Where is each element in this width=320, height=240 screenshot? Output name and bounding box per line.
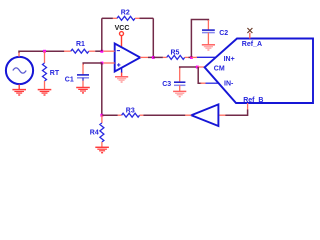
resistor RT top pin — [44, 51, 46, 63]
svg-text:IN+: IN+ — [224, 56, 235, 63]
node junction at R3/R4 — [100, 114, 103, 117]
wire Ref_B to buffer — [225, 110, 248, 116]
op-amp U1 triangle — [115, 44, 141, 72]
resistor R3 right pin — [140, 114, 144, 116]
op-amp U1 non-inverting input pin — [103, 62, 114, 64]
buffer U3 input pin — [219, 114, 226, 116]
wire buffer output to R3 — [143, 114, 185, 116]
voltage source top pin — [18, 52, 20, 56]
capacitor C1 bottom stem — [82, 78, 84, 81]
pin stub IN+ — [197, 56, 216, 58]
wire R5 to IN+ node — [188, 56, 191, 58]
wire R2 top rail left — [102, 17, 113, 19]
node junction at IN+ — [190, 56, 193, 59]
resistor R4 — [100, 123, 104, 142]
op-amp U1 plus symbol — [117, 63, 120, 66]
pin stub CM salmon — [197, 66, 204, 68]
resistor R2 left pin — [113, 17, 117, 19]
wire op-amp output to node — [148, 56, 153, 58]
node junction at output — [152, 56, 155, 59]
op-amp U1 inverting input pin — [103, 50, 114, 52]
pin stub IN+ salmon — [191, 56, 197, 58]
op-amp U1 output pin — [140, 56, 148, 58]
wire CM node to IN- — [198, 67, 201, 83]
op-amp U1 ground stem — [121, 73, 123, 77]
voltage source VS circle — [6, 57, 33, 84]
svg-text:C1: C1 — [65, 76, 74, 83]
wire node to R3 — [102, 114, 118, 116]
voltage source sine symbol — [13, 68, 26, 73]
resistor R1 — [71, 49, 89, 53]
capacitor C2 bottom pin — [207, 33, 209, 45]
resistor R1 right pin — [89, 50, 95, 52]
capacitor C3 top pin — [179, 68, 181, 82]
VCC stem to op-amp U1 — [121, 36, 123, 48]
resistor R5 right pin — [185, 56, 189, 58]
capacitor C3 bottom pin — [179, 85, 181, 91]
resistor R2 — [117, 16, 135, 20]
capacitor C2 top pin — [207, 20, 209, 30]
svg-text:CM: CM — [214, 66, 225, 73]
wire C1 to plus node — [83, 63, 102, 65]
wire output node to R5 — [153, 56, 163, 58]
amplifier U2 polygon — [205, 39, 313, 104]
svg-text:R4: R4 — [90, 129, 99, 136]
svg-text:R3: R3 — [126, 107, 135, 114]
resistor RT bottom pin — [44, 81, 46, 89]
resistor R4 bottom pin — [101, 142, 103, 147]
ground under RT — [38, 90, 52, 95]
node junction at op-amp non-inverting input — [100, 62, 103, 65]
svg-text:R2: R2 — [121, 9, 130, 16]
capacitor C1 — [77, 75, 89, 78]
resistor R3 — [122, 113, 140, 117]
resistor R3 left pin — [118, 114, 122, 116]
svg-text:C3: C3 — [162, 81, 171, 88]
wire R2 left leg — [101, 18, 103, 51]
resistor R2 right pin — [135, 17, 140, 19]
svg-text:Ref_B: Ref_B — [243, 97, 263, 104]
capacitor C1 bottom pin — [82, 81, 84, 88]
ground under op-amp U1 — [115, 77, 128, 82]
Ref_A no-connect X — [247, 28, 252, 33]
resistor RT — [43, 63, 47, 81]
wire R2 top rail right — [140, 17, 154, 19]
ground under C3 — [173, 91, 186, 96]
node junction at RT tap — [43, 50, 46, 53]
resistor R4 top pin — [101, 115, 103, 123]
wire source to RT and R1 — [19, 51, 65, 52]
VCC power symbol circle — [120, 32, 124, 36]
capacitor C3 — [174, 82, 185, 85]
op-amp U1 ground stub — [121, 68, 123, 73]
resistor R5 left pin — [163, 56, 167, 58]
svg-text:R1: R1 — [76, 41, 85, 48]
svg-text:RT: RT — [50, 70, 60, 77]
wire R1 to inverting node — [95, 50, 102, 52]
svg-text:IN-: IN- — [224, 81, 234, 88]
ground under C2 — [202, 45, 215, 50]
capacitor C2 — [202, 30, 215, 32]
wire C3 to CM row — [180, 67, 198, 69]
node junction at op-amp inverting input — [100, 50, 103, 53]
node junction at CM — [196, 66, 199, 69]
voltage source bottom pin — [18, 84, 20, 89]
resistor R1 left pin — [64, 50, 71, 52]
wire C2 loop — [191, 20, 208, 58]
wire R2 right leg to output — [152, 18, 154, 57]
resistor R5 — [167, 55, 185, 59]
capacitor C1 top pin — [82, 64, 84, 75]
Ref_A no-connect stub — [249, 33, 251, 39]
pin stub IN- salmon — [201, 82, 206, 84]
ground under source — [12, 90, 26, 95]
ground under R4 — [95, 147, 109, 152]
pin stub IN- — [206, 82, 219, 84]
Ref_B pin stub down — [247, 103, 249, 110]
svg-text:C2: C2 — [219, 30, 228, 37]
buffer U3 output pin — [185, 114, 192, 116]
svg-text:R5: R5 — [171, 49, 180, 56]
svg-text:Ref_A: Ref_A — [242, 41, 262, 48]
wire plus node down to R3/R4 node — [101, 63, 103, 115]
ground under C1 — [76, 88, 90, 93]
op-amp U1 minus symbol — [117, 50, 120, 52]
buffer U3 triangle — [191, 104, 218, 126]
